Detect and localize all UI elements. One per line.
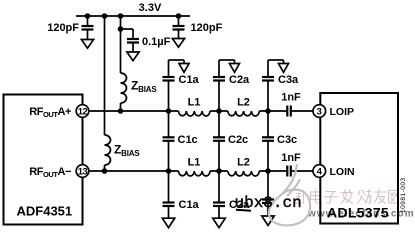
capacitor 1nF bottom (series) xyxy=(287,166,291,177)
pin 12 xyxy=(76,105,89,118)
inductor L1 bottom xyxy=(179,171,211,176)
wire node to upper Z_BIAS xyxy=(120,29,122,73)
ground left 120pF xyxy=(81,40,93,49)
inductor L2 bottom xyxy=(228,171,259,176)
node top trace C3 xyxy=(265,108,271,114)
svg-text:12: 12 xyxy=(78,107,88,118)
ground C2a bottom xyxy=(213,218,225,228)
wire bottom trace seg3 xyxy=(259,170,287,172)
svg-text:10981-003: 10981-003 xyxy=(400,177,407,213)
glyph you xyxy=(375,190,387,204)
glyph dian xyxy=(311,190,322,204)
svg-text:L1: L1 xyxy=(188,97,201,109)
svg-text:C1c: C1c xyxy=(178,134,198,146)
ground C2a top xyxy=(230,64,240,73)
watermark red partial glyph left xyxy=(294,191,304,204)
svg-text:L2: L2 xyxy=(237,97,250,109)
svg-text:LOIN: LOIN xyxy=(330,166,355,178)
svg-text:0.1µF: 0.1µF xyxy=(142,36,171,48)
inductor L1 top xyxy=(179,111,211,116)
svg-text:4: 4 xyxy=(317,167,323,178)
svg-text:13: 13 xyxy=(78,167,88,178)
node bottom trace ZBIAS xyxy=(102,168,108,174)
node 0.1uF branch xyxy=(118,26,124,32)
ground C3a bottom xyxy=(262,216,274,226)
node rail-ZBIAS upper wire xyxy=(118,13,124,19)
wire top trace seg1 xyxy=(89,110,179,112)
wire rail to lower Z_BIAS (crosses top trace) xyxy=(104,16,106,135)
capacitor 0.1uF xyxy=(121,29,140,52)
node rail-ZBIAS lower wire xyxy=(102,13,108,19)
node rail-120pF right xyxy=(176,13,182,19)
svg-text:ADF4351: ADF4351 xyxy=(17,204,73,219)
node top trace C2 xyxy=(216,108,222,114)
svg-text:C3a: C3a xyxy=(278,74,299,86)
capacitor C1a bottom xyxy=(163,171,175,218)
IC ADL5375 box xyxy=(320,93,398,224)
wire 3.3V power rail xyxy=(76,15,190,17)
svg-text:1nF: 1nF xyxy=(281,152,301,164)
inductor Z_BIAS lower xyxy=(105,135,111,165)
svg-text:C1a: C1a xyxy=(179,74,200,86)
ground C3a top xyxy=(279,64,289,73)
watermark red chinese row1 (vector glyphs) xyxy=(311,190,399,204)
svg-text:C2a: C2a xyxy=(229,74,250,86)
node bottom trace C3 xyxy=(265,168,271,174)
capacitor 1nF top (series) xyxy=(287,106,291,117)
ground C1a top xyxy=(179,64,189,73)
node bottom trace C1 xyxy=(166,168,172,174)
svg-text:L2: L2 xyxy=(237,157,250,169)
watermark gray swoosh logo xyxy=(269,164,310,225)
capacitor 120pF right xyxy=(173,16,185,39)
svg-text:3.3V: 3.3V xyxy=(139,2,162,14)
IC ADF4351 box xyxy=(4,95,83,225)
svg-text:ubx8.cn: ubx8.cn xyxy=(235,194,302,212)
svg-text:L1: L1 xyxy=(188,157,201,169)
glyph zi xyxy=(324,192,338,204)
ground C1a bottom xyxy=(162,218,174,228)
wire top trace seg2 xyxy=(210,110,228,112)
wire bottom trace right of 1nF xyxy=(291,170,313,172)
svg-text:C1a: C1a xyxy=(179,199,200,211)
svg-text:3: 3 xyxy=(317,107,322,118)
glyph fa xyxy=(341,190,353,204)
capacitor C3a bottom xyxy=(262,171,274,216)
capacitor C2c xyxy=(213,111,225,171)
inductor L2 top xyxy=(228,111,259,116)
capacitor C2a top xyxy=(213,60,235,111)
node top trace ZBIAS xyxy=(118,108,124,114)
capacitor C1a top xyxy=(163,60,185,111)
capacitor C1c xyxy=(163,111,175,171)
wire top trace seg3 xyxy=(259,110,287,112)
capacitor C3a top xyxy=(262,60,284,111)
svg-text:LOIP: LOIP xyxy=(330,106,355,118)
capacitor C3c xyxy=(262,111,274,171)
node top trace C1 xyxy=(166,108,172,114)
svg-text:C2c: C2c xyxy=(228,134,248,146)
pin 13 xyxy=(76,165,89,178)
svg-text:120pF: 120pF xyxy=(47,22,79,34)
node rail-120pF left xyxy=(85,13,91,19)
node bottom trace C2 xyxy=(216,168,222,174)
pin 4 xyxy=(313,165,326,178)
svg-text:120pF: 120pF xyxy=(191,22,223,34)
capacitor C2a bottom xyxy=(213,171,225,218)
inductor Z_BIAS upper xyxy=(121,73,127,103)
capacitor 120pF left xyxy=(82,16,94,40)
svg-text:1nF: 1nF xyxy=(281,92,301,104)
wire bottom trace seg1 xyxy=(89,170,179,172)
ground right 120pF xyxy=(172,39,184,48)
glyph wang xyxy=(389,191,399,204)
glyph shao xyxy=(358,190,372,204)
wire top trace right of 1nF xyxy=(291,110,313,112)
svg-text:ADL5375: ADL5375 xyxy=(327,205,389,221)
wire rail to 0.1uF node xyxy=(120,16,122,29)
svg-text:C3c: C3c xyxy=(277,134,297,146)
wire bottom trace seg2 xyxy=(210,170,228,172)
pin 3 xyxy=(313,105,326,118)
ground 0.1uF xyxy=(127,52,139,61)
